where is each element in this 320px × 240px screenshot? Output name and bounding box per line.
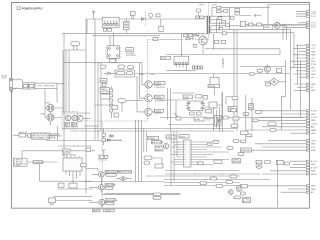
label box xyxy=(33,161,42,164)
choke L802 xyxy=(159,26,163,31)
svg-text:IC803: IC803 xyxy=(194,119,200,121)
relay RY802 xyxy=(62,149,76,156)
transistor Q811 xyxy=(264,64,270,74)
label B+ box xyxy=(240,185,247,189)
rail y179.5 xyxy=(164,179,270,181)
caution text block xyxy=(31,133,62,140)
svg-text:+5V: +5V xyxy=(311,58,315,60)
resistor R811 xyxy=(193,45,197,48)
wire bridge links xyxy=(45,108,64,125)
svg-text:V OUT: V OUT xyxy=(311,117,318,119)
diode D802 xyxy=(141,18,144,21)
secondary rails down xyxy=(217,18,220,33)
secondary wires xyxy=(211,16,294,33)
svg-text:4 GND: 4 GND xyxy=(14,165,21,167)
label right xyxy=(223,116,229,119)
label IC802 upper xyxy=(208,84,220,88)
capacitor C809 xyxy=(100,65,106,68)
box bottom small xyxy=(49,198,56,205)
rail y170.5 xyxy=(165,170,240,172)
svg-text:D801: D801 xyxy=(46,103,52,105)
svg-text:IC803: IC803 xyxy=(126,50,132,52)
wire riser xyxy=(63,33,65,158)
box 2row bottom xyxy=(243,198,252,203)
small boxes right mid xyxy=(144,156,152,159)
capacitor C821 xyxy=(219,27,223,30)
svg-text:IC801: IC801 xyxy=(161,58,167,60)
box near bridge 2 xyxy=(114,113,119,117)
svg-text:+9V: +9V xyxy=(311,48,315,50)
rail corners xyxy=(144,129,147,153)
wire secondary return xyxy=(205,48,240,50)
svg-text:SDA: SDA xyxy=(311,149,316,152)
dashed rail vertical bottom xyxy=(101,121,103,205)
label PC801 xyxy=(154,81,165,88)
CN906 labels xyxy=(311,160,318,176)
svg-text:COLD: COLD xyxy=(149,74,155,76)
wire fanout xyxy=(53,189,92,201)
resistor R810 xyxy=(189,34,193,37)
box C820 xyxy=(231,124,238,127)
box C808 xyxy=(240,21,245,26)
label D801 xyxy=(130,12,135,16)
dashed rail y121 xyxy=(84,120,148,122)
svg-text:COUPLER: COUPLER xyxy=(155,87,166,89)
control IC801 body xyxy=(174,56,189,70)
svg-text:H OUT: H OUT xyxy=(311,111,318,113)
capacitor C804 xyxy=(217,6,221,9)
wire to fet xyxy=(193,33,203,54)
rounded C label xyxy=(198,162,204,165)
box right xyxy=(214,160,222,164)
diamond VR801 xyxy=(116,177,132,181)
label IC804 xyxy=(166,135,176,139)
connector CN803 xyxy=(283,22,316,29)
box below IC xyxy=(110,59,116,62)
connector CN801 xyxy=(102,17,119,28)
label IC801 xyxy=(179,135,189,139)
box right xyxy=(276,161,284,165)
transistor Q808 xyxy=(89,199,107,205)
svg-text:IC801: IC801 xyxy=(179,136,185,138)
label rounded 2 xyxy=(285,162,290,165)
capacitor C801 xyxy=(132,15,134,19)
svg-text:RY801: RY801 xyxy=(63,151,70,153)
wire bottom-left rails xyxy=(62,113,90,118)
rail y176 xyxy=(146,175,240,177)
label IC806 xyxy=(126,48,134,52)
box right of IC805 xyxy=(209,102,217,108)
svg-text:F801 5A: F801 5A xyxy=(19,131,27,134)
resistor R808 xyxy=(231,16,234,19)
sense resistor R813 xyxy=(221,40,226,43)
wire pc feeds xyxy=(137,63,142,112)
wire filter out xyxy=(45,84,64,108)
diode D813 xyxy=(108,135,115,138)
label box mid right xyxy=(241,110,277,143)
label rounded xyxy=(213,140,219,143)
regulator Q813 TO220 xyxy=(215,116,222,127)
rails into right bank xyxy=(246,95,252,140)
label Q808 xyxy=(106,199,118,202)
label 2row xyxy=(155,146,163,151)
svg-text:P ON: P ON xyxy=(311,64,317,66)
CN906 feeds xyxy=(262,161,306,174)
svg-text:HOT: HOT xyxy=(200,4,205,6)
svg-text:GND: GND xyxy=(311,84,316,86)
bridge D810 xyxy=(41,114,55,122)
box 2row xyxy=(228,107,237,112)
wire drop to lower bus xyxy=(86,19,88,33)
dashed boundary horizontal xyxy=(160,39,179,41)
wire bus2 xyxy=(92,35,160,37)
box D812 xyxy=(69,183,77,188)
svg-text:TO F: TO F xyxy=(311,27,316,29)
svg-text:CONTROL: CONTROL xyxy=(126,55,137,57)
svg-text:GND: GND xyxy=(311,114,316,116)
dashed box heatsink xyxy=(62,112,78,130)
note text block xyxy=(13,158,27,167)
bridge D809 xyxy=(46,103,55,112)
svg-text:+180V: +180V xyxy=(311,123,318,125)
svg-text:OUT: OUT xyxy=(206,120,211,122)
circled part D815 xyxy=(256,160,262,168)
transformer T803 xyxy=(204,16,211,35)
svg-text:AC: AC xyxy=(311,191,314,194)
svg-text:GND: GND xyxy=(311,90,316,92)
label B801 xyxy=(152,141,164,145)
connector CN904 pins xyxy=(306,44,309,46)
long rail x95 xyxy=(94,19,96,140)
aux marks xyxy=(222,58,224,68)
isolation dash bottom xyxy=(101,205,103,209)
connector CN909 xyxy=(306,140,309,151)
CN909 labels xyxy=(311,140,317,152)
big box IC804 xyxy=(63,156,82,183)
transistor Q807 xyxy=(89,185,106,191)
wire main bus xyxy=(87,18,205,20)
resistor ladder 1 xyxy=(64,123,69,128)
resistor R820 xyxy=(176,117,181,120)
wire y105 xyxy=(95,104,112,106)
transistor Q803 xyxy=(65,115,71,121)
svg-text:A OUT: A OUT xyxy=(311,160,318,163)
AC inlet P801 xyxy=(10,78,13,90)
label rounded xyxy=(195,95,202,99)
svg-text:RESET: RESET xyxy=(155,149,163,151)
capacitor C817 xyxy=(189,112,194,115)
gate network parts xyxy=(196,33,199,35)
transistor Q809 xyxy=(164,143,169,148)
wire B+ rail xyxy=(230,5,270,25)
svg-text:PHOTO: PHOTO xyxy=(155,113,163,115)
caution label F802 xyxy=(19,131,28,137)
label rounded xyxy=(232,97,238,100)
pin out wires right xyxy=(193,142,229,165)
ground xyxy=(10,90,13,94)
photocoupler PC801 xyxy=(142,81,154,88)
wire bottom rails xyxy=(84,182,164,208)
svg-text:Q802 REG: Q802 REG xyxy=(105,185,116,187)
connector CN906 xyxy=(306,160,309,175)
label L801 xyxy=(207,143,212,146)
label IC802 xyxy=(183,95,193,99)
caution icon xyxy=(28,134,31,138)
snubber box xyxy=(115,70,134,77)
box C819 xyxy=(231,109,237,112)
resistor R817 xyxy=(100,156,103,159)
transistor Q805 xyxy=(77,115,83,121)
label rounded xyxy=(249,73,254,76)
fuse marks in shield xyxy=(38,85,54,87)
box 2row lower xyxy=(249,104,254,110)
svg-text:DEG: DEG xyxy=(311,186,316,188)
node dots rails xyxy=(95,128,96,129)
long rail x101 xyxy=(100,63,102,131)
cap C816 xyxy=(102,129,105,146)
rounded boxes on rails xyxy=(210,177,217,180)
relay RY801 xyxy=(64,41,86,50)
svg-text:5VS: 5VS xyxy=(311,61,316,63)
box IC802 upper xyxy=(210,77,219,85)
box Q812 xyxy=(276,69,281,73)
svg-text:AC OUT: AC OUT xyxy=(243,200,252,203)
transistor jumper xyxy=(174,113,180,119)
resistor pair R821 xyxy=(192,66,194,69)
node dots xyxy=(95,63,96,64)
wire y73.5 long xyxy=(135,73,291,75)
svg-text:MUTE: MUTE xyxy=(311,174,318,176)
degauss rails down xyxy=(63,50,69,112)
photocoupler PC802 xyxy=(140,95,154,102)
wire y54.5 long xyxy=(166,54,280,56)
label Q811 xyxy=(257,69,262,72)
svg-text:GND: GND xyxy=(311,133,316,135)
svg-text:DEGAUSS: DEGAUSS xyxy=(33,161,44,164)
svg-text:IC804: IC804 xyxy=(166,137,172,139)
label IC801 xyxy=(161,56,171,59)
svg-text:HOT: HOT xyxy=(94,210,99,212)
shield box xyxy=(35,83,57,89)
svg-text:COLD: COLD xyxy=(105,210,111,212)
svg-text:TO C: TO C xyxy=(311,16,316,18)
svg-text:LIMITER: LIMITER xyxy=(101,91,110,93)
slash marks xyxy=(13,88,16,89)
svg-text:IC802: IC802 xyxy=(183,97,189,99)
diode D817 xyxy=(222,20,226,23)
svg-text:POWER SUPPLY: POWER SUPPLY xyxy=(22,8,43,11)
label rounded xyxy=(105,187,113,190)
capacitor C813 xyxy=(126,72,132,75)
box C807 xyxy=(222,32,226,35)
labels column mid-right xyxy=(243,113,249,116)
svg-text:FB801: FB801 xyxy=(100,81,107,83)
line filter L801 xyxy=(22,83,35,89)
error amp IC805 xyxy=(186,101,205,111)
rail y185.5 xyxy=(164,185,240,187)
svg-text:D802: D802 xyxy=(41,114,47,116)
isolation dashed mid xyxy=(147,76,149,121)
vertical rails right of fet xyxy=(213,30,237,131)
wire AC top xyxy=(13,79,17,81)
label rounded xyxy=(106,174,117,177)
resistor R814 xyxy=(249,23,253,26)
long rail x98 xyxy=(97,63,99,140)
svg-text:RELAY DRIVE: RELAY DRIVE xyxy=(62,153,76,156)
box D816 xyxy=(206,110,212,113)
FB801 xyxy=(100,78,107,82)
svg-text:GND: GND xyxy=(311,55,316,57)
connector CN907 xyxy=(306,185,309,193)
svg-text:GND: GND xyxy=(311,189,316,191)
CN904 pin labels xyxy=(311,45,317,79)
svg-text:+33V: +33V xyxy=(311,140,317,142)
diode D803 xyxy=(197,9,201,16)
capacitor C810 xyxy=(118,65,125,68)
resistor R801 xyxy=(104,18,108,21)
box R819 xyxy=(233,117,239,120)
capacitor C811 xyxy=(128,66,134,69)
box R816 xyxy=(101,94,110,99)
capacitor C812 xyxy=(116,72,125,75)
resistor R803 xyxy=(114,18,118,21)
TH801 xyxy=(100,88,110,94)
label IC806 xyxy=(194,117,204,121)
svg-text:IC802: IC802 xyxy=(264,27,270,29)
small caps row xyxy=(240,14,261,17)
junction dots rails xyxy=(195,174,196,175)
wire q806 area xyxy=(86,169,101,185)
box near bridge top xyxy=(112,105,118,109)
svg-text:GND: GND xyxy=(311,164,316,166)
transistor Q804 xyxy=(72,115,78,121)
label under xyxy=(234,196,241,199)
CN909 feeds xyxy=(252,141,306,151)
wire y146 xyxy=(58,145,92,147)
svg-text:OPTION: OPTION xyxy=(232,162,240,164)
CN905 labels xyxy=(311,111,318,135)
wire aux vertical xyxy=(181,33,183,56)
label Q806 xyxy=(105,170,120,173)
vertical rail xyxy=(229,8,231,30)
wire xyxy=(99,150,107,160)
resistor R818 xyxy=(104,156,107,159)
capacitor C805 xyxy=(217,10,221,13)
wire top right xyxy=(212,8,230,16)
switch S801 xyxy=(16,78,22,83)
svg-text:TPS801: TPS801 xyxy=(147,138,155,140)
svg-text:+12V: +12V xyxy=(311,71,317,73)
transistor Q801 FET xyxy=(199,36,207,44)
svg-text:B OUT: B OUT xyxy=(311,167,318,169)
rail y131 xyxy=(70,130,234,132)
wire right verticals xyxy=(290,46,294,110)
diode D811 xyxy=(58,183,64,187)
svg-text:GND: GND xyxy=(311,51,316,53)
svg-text:B801 CORE: B801 CORE xyxy=(152,142,164,144)
border frame xyxy=(12,3,310,209)
capacitor C814 xyxy=(102,83,106,86)
relay coil L801 xyxy=(149,13,153,19)
CN907 labels xyxy=(311,186,316,194)
wire top rail xyxy=(268,4,309,6)
transformer T802 winding xyxy=(124,19,129,33)
wire box feeds xyxy=(214,74,215,96)
wire lower bus xyxy=(62,32,204,34)
svg-text:GND: GND xyxy=(311,74,316,76)
isolation boundary dashed xyxy=(148,3,209,76)
wire pair mid verticals xyxy=(214,92,223,131)
wire y124.5 xyxy=(168,124,214,126)
diode D818 xyxy=(226,24,230,27)
box 2row right xyxy=(232,159,241,164)
wire xyxy=(111,86,143,118)
svg-text:HOT: HOT xyxy=(140,74,145,76)
svg-text:Q803 MUTE: Q803 MUTE xyxy=(106,200,118,202)
svg-text:DET: DET xyxy=(311,67,316,69)
svg-text:REG 9V OUT: REG 9V OUT xyxy=(119,172,132,174)
wire y62.6 xyxy=(64,62,142,64)
vertical rails center xyxy=(168,88,177,131)
wire y49 extend xyxy=(240,49,280,55)
title icon xyxy=(17,7,20,10)
resistor R802 xyxy=(109,18,113,21)
wire down from reg xyxy=(282,27,284,40)
svg-text:D805 REC: D805 REC xyxy=(241,150,251,152)
IC802 regulator xyxy=(264,25,272,30)
rail y174 xyxy=(165,173,260,175)
dashed drop xyxy=(145,12,147,26)
enclosure box xyxy=(281,60,285,130)
rail y126 xyxy=(84,125,98,127)
wire out rail xyxy=(240,66,286,68)
CN907 feeds xyxy=(180,186,306,194)
label VR802 xyxy=(265,83,270,86)
label TP801 xyxy=(147,136,159,140)
label rounded bl xyxy=(240,192,245,195)
wires center xyxy=(160,92,232,120)
svg-text:COLD: COLD xyxy=(211,4,217,6)
wire y70.3 xyxy=(166,69,196,71)
node junction xyxy=(64,83,65,84)
labels right pair xyxy=(153,193,161,196)
wire reg input xyxy=(240,24,306,26)
label rounded xyxy=(106,202,115,205)
earth symbol E801 xyxy=(92,11,95,19)
svg-text:GND: GND xyxy=(311,144,316,146)
resistor pair R822 xyxy=(198,66,200,69)
pins column resistors xyxy=(110,89,113,92)
label box 2 xyxy=(118,170,132,173)
transistor Q814 xyxy=(228,190,233,195)
diode D808 xyxy=(104,72,116,75)
box D805 xyxy=(235,8,239,11)
label PC803 xyxy=(154,109,163,115)
sense resistor R812 xyxy=(214,40,219,43)
connector CN802 xyxy=(296,10,316,18)
rail y182.5 xyxy=(164,182,240,184)
wire fuse xyxy=(13,134,32,136)
box small xyxy=(203,96,208,100)
label PC802 xyxy=(154,95,165,102)
transistor Q806 xyxy=(92,172,106,178)
box right mid xyxy=(153,37,158,40)
diode D807 xyxy=(283,24,285,26)
svg-text:+15V: +15V xyxy=(311,45,317,47)
rail y128.5 xyxy=(62,128,237,130)
box D806 xyxy=(235,12,239,15)
label Q807 xyxy=(105,183,116,186)
